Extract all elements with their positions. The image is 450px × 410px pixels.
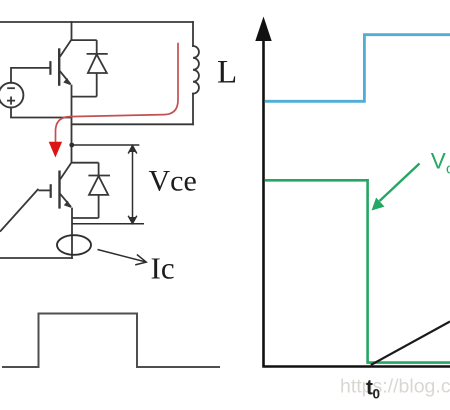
svg-text:c: c [446,161,450,178]
svg-text:V: V [431,149,446,174]
svg-text:Ic: Ic [151,251,175,286]
svg-text:Vce: Vce [149,165,197,198]
svg-text:0: 0 [373,387,381,402]
svg-text:L: L [217,55,237,91]
svg-text:https://blog.csdn: https://blog.csdn [340,376,450,398]
